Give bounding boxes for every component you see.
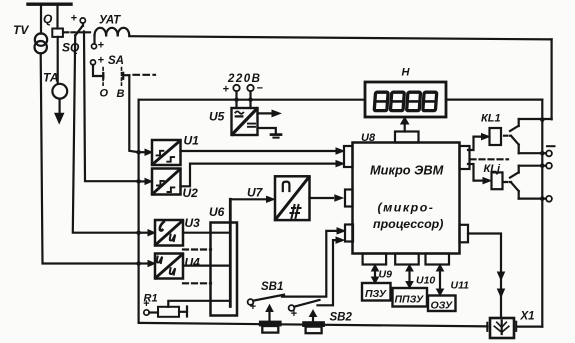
svg-text:+: +	[98, 40, 105, 52]
svg-text:U8: U8	[361, 132, 376, 144]
svg-text:ОЗУ: ОЗУ	[431, 300, 454, 312]
svg-text:Х1: Х1	[520, 311, 535, 323]
svg-text:+: +	[143, 298, 150, 310]
svg-text:SB2: SB2	[330, 312, 353, 324]
svg-text:U5: U5	[209, 110, 225, 124]
svg-text:УАТ: УАТ	[99, 15, 121, 27]
svg-text:КLj: КLj	[484, 163, 501, 175]
svg-text:ППЗУ: ППЗУ	[395, 294, 424, 306]
svg-text:+: +	[223, 84, 230, 96]
svg-text:Q: Q	[43, 12, 53, 26]
svg-text:SQ: SQ	[62, 41, 80, 55]
svg-text:U10: U10	[416, 275, 435, 287]
svg-text:−: −	[257, 83, 264, 95]
svg-text:Микро ЭВМ: Микро ЭВМ	[370, 163, 444, 178]
svg-text:О: О	[100, 88, 109, 100]
svg-text:U4: U4	[185, 256, 201, 270]
svg-text:ТА: ТА	[43, 71, 59, 85]
svg-text:U6: U6	[209, 205, 225, 219]
svg-text:+: +	[250, 301, 257, 313]
svg-text:+: +	[98, 55, 105, 67]
svg-text:процессор): процессор)	[373, 217, 443, 231]
svg-text:TV: TV	[13, 23, 29, 37]
svg-text:U2: U2	[183, 186, 199, 200]
svg-text:КL1: КL1	[481, 113, 501, 125]
svg-text:(микро-: (микро-	[378, 201, 435, 215]
svg-text:+: +	[291, 308, 298, 320]
svg-text:U9: U9	[379, 269, 393, 281]
svg-text:U1: U1	[184, 134, 200, 148]
svg-text:U11: U11	[451, 280, 470, 292]
svg-text:U3: U3	[185, 216, 201, 230]
svg-text:SA: SA	[108, 55, 124, 67]
svg-text:Н: Н	[402, 67, 411, 79]
svg-text:В: В	[117, 88, 125, 100]
svg-text:+: +	[71, 13, 78, 25]
svg-text:U7: U7	[247, 186, 264, 200]
svg-text:SB1: SB1	[261, 281, 283, 293]
svg-text:ПЗУ: ПЗУ	[365, 288, 387, 300]
